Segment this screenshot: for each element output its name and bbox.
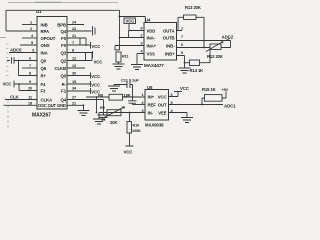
svg-text:4: 4 [140,50,143,54]
wire U1 right Q0 stub [67,75,90,77]
svg-text:F4: F4 [41,82,47,87]
scan page edge left marks [0,38,9,129]
svg-text:Q2: Q2 [60,58,66,63]
op-amp U4 MAX4477 body [144,23,177,61]
ground below R11 [113,64,125,69]
wire U1 right pin23 Q4 stub [67,30,92,32]
node junction INB+ net [184,62,186,64]
svg-text:R15 1K: R15 1K [202,87,216,92]
wire U1 right GND stub [67,104,84,106]
wire CLK to U1 CLKA [5,99,37,101]
wire U1 right pin24 BPB stub [67,24,84,26]
svg-text:VDD: VDD [147,28,156,33]
svg-text:OSC OUT GND: OSC OUT GND [38,103,66,108]
node junction INA- net [119,37,121,39]
capacitor to REF row [128,97,137,105]
svg-text:INB: INB [41,22,48,27]
node junction F0 rows [85,44,87,46]
ground below U4 [131,65,143,70]
svg-text:+5V: +5V [222,88,229,92]
wire U1 right F0 stubs jumpered [67,38,86,45]
wire U4 OUTB to ADC2 [177,38,231,41]
svg-text:REF: REF [148,102,157,107]
wire U1 right F1 stub [67,90,90,92]
svg-text:2: 2 [140,34,142,38]
ground below U1 [78,111,90,116]
wire U1 pin7 Q6 stub [22,67,37,69]
svg-text:Q0: Q0 [60,73,66,78]
wire U5 VCC pin up [169,92,183,97]
svg-text:INB+: INB+ [165,51,175,56]
wire R13 left to OUTA [177,17,184,30]
svg-text:5: 5 [181,51,183,55]
U5 left pin labels [148,94,157,115]
svg-text:8: 8 [140,27,142,31]
U4 left pin numbers [140,27,143,54]
svg-text:VCC: VCC [126,19,135,24]
node junction OUT net [201,104,203,106]
wire VCC box to U4 pin8 [129,24,144,31]
capacitor at U1 Q4 output [93,26,96,36]
svg-text:2: 2 [141,101,143,105]
svg-text:R12 20K: R12 20K [207,54,223,59]
wire top net down to R11 [119,17,121,51]
svg-text:ADC1: ADC1 [224,104,236,109]
svg-text:Q0: Q0 [41,58,47,63]
svg-text:6: 6 [181,43,183,47]
svg-text:F1: F1 [61,88,67,93]
svg-text:CLK: CLK [10,95,20,100]
node junction IN- input [96,112,98,114]
wire U4 INB- row [177,47,211,49]
wire U4 INA- to vertical [120,37,145,39]
wire U1 right R- stub [67,83,90,85]
svg-text:U5: U5 [147,85,153,90]
svg-text:R+: R+ [41,73,47,78]
wire junction down to F3 row [19,84,37,91]
svg-text:OUTA: OUTA [163,28,174,33]
wire REF row [133,104,146,106]
resistor R11 [116,52,121,62]
node junction Q0 row [18,60,20,62]
svg-text:3: 3 [140,42,142,46]
svg-text:Q4: Q4 [60,97,66,102]
wire VCC to U1 pin9 F4 [14,83,37,85]
wire U4 pin8 to pin2 jumper [128,31,130,38]
svg-text:R-: R- [62,82,67,87]
svg-text:RPA: RPA [41,29,49,34]
capacitor on U1 Q0 row [7,57,37,63]
U4 right pin labels [163,28,175,56]
power VCC flag at Q2 row [92,51,94,58]
svg-text:VCC: VCC [3,82,12,87]
node junction INB- net [203,47,205,49]
wire IN- row [99,112,145,114]
svg-text:OUTB: OUTB [163,35,175,40]
svg-text:100K: 100K [132,129,141,133]
wire U1 pin18 OSC row to left edge [4,104,38,106]
wire top net to U4 [120,17,146,23]
U1 left pin labels [38,22,66,108]
svg-text:INB-: INB- [166,43,175,48]
node junction top VCC net [119,16,121,18]
IC U1 MAX267 body [37,17,67,110]
power VCC flag at F1 row [90,88,92,94]
svg-text:VCC: VCC [94,59,103,64]
wire U1 right pin27 stub down [67,100,104,116]
wire U1 right CLKB stub [67,67,85,69]
svg-text:R13 20K: R13 20K [185,5,201,10]
wire R14 right up to R12 [200,50,211,63]
node junction OUTB net [203,40,205,42]
wire U4 INB+ down [177,56,185,63]
svg-text:CLKA: CLKA [41,97,53,102]
wire GND row down [83,105,85,110]
svg-text:ADC0: ADC0 [10,48,22,53]
svg-text:U4: U4 [145,18,151,23]
wire junction Q0 row down to R+ row [19,61,38,76]
svg-text:INA+: INA+ [147,43,157,48]
svg-text:20K: 20K [110,120,117,125]
trimmer resistor R12 20K [210,44,221,50]
svg-text:VCC: VCC [180,86,189,91]
node junction R8 input [96,96,98,98]
wire U5 VEE down [169,113,188,118]
svg-text:F3: F3 [41,88,47,93]
svg-text:ONS: ONS [41,43,50,48]
power VCC flag at F0 rows [86,42,91,49]
svg-text:MAX4477: MAX4477 [144,63,164,68]
svg-text:CLKB: CLKB [54,66,66,71]
svg-text:OPOUT: OPOUT [41,36,56,41]
U4 right pin numbers [181,27,183,56]
svg-text:7: 7 [181,35,183,39]
svg-text:OUT: OUT [158,102,167,107]
U5 right pin labels [158,94,167,115]
wire R13 right down [196,17,204,47]
wire R15 to +5V [222,92,226,99]
U4 left pin labels [147,28,157,56]
svg-text:F0: F0 [61,43,67,48]
wire left jumper IN+ to IN- row [96,97,98,113]
power VCC flag at Q0 row [90,73,92,79]
wire U4 VSS to ground [137,54,144,65]
U5 right pin numbers [171,93,174,113]
wire U1 right Q3 Q2 stubs jumpered [67,53,92,61]
svg-text:Q6: Q6 [41,66,47,71]
svg-text:VCC: VCC [91,74,100,79]
U1 right pin numbers [72,21,77,106]
wire feedback loop RPA to top [6,10,120,31]
svg-text:MAX9038: MAX9038 [145,123,164,128]
svg-text:R14 1K: R14 1K [190,68,204,73]
svg-text:1: 1 [181,27,183,31]
svg-text:U1: U1 [36,9,42,14]
ground below VEE [181,118,193,123]
wire R8 row to U5 IN+ [86,96,145,98]
resistor R15 1K pull-up [202,98,205,105]
wire U4 INA+ down [115,46,144,51]
svg-text:1: 1 [141,93,143,97]
U5 left pin numbers [141,93,143,113]
svg-text:VCC: VCC [92,44,101,49]
ground left of C11 [108,85,127,92]
svg-text:VCC: VCC [158,94,167,99]
wire U5 OUT to ADC1 [169,104,224,106]
U1 left pin numbers [28,21,34,106]
svg-text:Q3: Q3 [60,50,66,55]
svg-text:Q4: Q4 [60,29,66,34]
svg-text:34: 34 [72,87,77,91]
svg-text:IN+: IN+ [148,94,155,99]
wire U1 pin4 OPOUT stub [22,37,37,39]
comparator U5 MAX9038 body [145,90,169,121]
node junction F4 row [18,83,20,85]
wire R12 right up to OUTB net [221,41,231,48]
ground below INB+ [179,63,191,73]
wire ADC0 to U1 INA [9,52,37,54]
svg-text:F0: F0 [61,36,67,41]
node junction IN+ net at cap [132,96,134,98]
svg-text:3: 3 [141,109,143,113]
svg-text:ADC2: ADC2 [222,34,234,39]
svg-text:VCC: VCC [91,82,100,87]
ground below pin27 wire [98,115,110,120]
svg-text:INA: INA [41,50,48,55]
svg-text:R9: R9 [100,106,105,110]
svg-text:BPB: BPB [57,22,66,27]
scan page edge top line [8,1,118,3]
power VCC boxed label near U4 [124,18,136,24]
svg-text:INA-: INA- [147,35,156,40]
wire U1 pin2 INB stub [22,24,37,26]
wire R10 to VCC below [126,133,134,146]
svg-text:R10: R10 [133,124,140,128]
svg-text:VEE: VEE [158,110,167,115]
wire U1 pin5 ONS stub [20,44,37,46]
svg-text:IN-: IN- [148,110,154,115]
power VCC flag at R- row [90,81,92,87]
svg-text:VSS: VSS [147,51,156,56]
resistor R10 100K [129,112,131,114]
node junction GND row [83,104,85,106]
svg-text:R11: R11 [122,55,128,59]
resistor R14 1K [185,62,190,64]
svg-text:VCC: VCC [124,150,133,155]
ground below R9 left [93,113,105,125]
svg-text:MAX267: MAX267 [32,113,51,119]
wire R11 bottom [118,62,120,64]
U1 right pin labels [54,22,66,102]
